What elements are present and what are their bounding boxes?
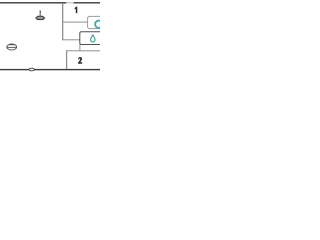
oval icon V1: top stripe bbox=[8, 43, 15, 46]
sprinkler icon S1: stem cap bbox=[40, 10, 42, 12]
node box 2 (droplet device, dark border) bbox=[80, 32, 105, 45]
node box 1 (droplet device, gray border) bbox=[88, 16, 105, 28]
wire: rail horizontal bbox=[66, 50, 100, 51]
wire: branch 1 horizontal to node box 1 bbox=[62, 22, 88, 23]
oval icon V1: outline bbox=[7, 44, 17, 50]
droplet icon D1 (teal ring, clipped at right edge) bbox=[95, 21, 102, 28]
sprinkler icon S1: left tab bbox=[35, 17, 37, 19]
node: ellipse junction on bottom bar bbox=[29, 68, 34, 71]
wire: elbow from node box 2 bottom down to rail bbox=[79, 45, 80, 51]
wire: top bus bar right segment bbox=[74, 2, 100, 3]
sprinkler icon S1: body bbox=[37, 16, 44, 20]
oval icon V1: middle stripe bbox=[7, 46, 17, 49]
wire: vertical trunk 2 down to bottom bar bbox=[66, 50, 67, 69]
wire: vertical trunk from top bar bbox=[62, 3, 63, 40]
sprinkler icon S1: body slit bbox=[38, 16, 43, 19]
sprinkler icon S1: right tab bbox=[44, 17, 46, 19]
label 2 bbox=[78, 57, 82, 64]
wire: branch 2 horizontal to node box 2 bbox=[62, 39, 80, 40]
wire: top bus bar left segment bbox=[0, 2, 66, 3]
wire: top bus bar light middle segment bbox=[66, 2, 73, 3]
droplet icon D2 (teal outline droplet) bbox=[91, 35, 95, 42]
label 1 bbox=[75, 7, 78, 14]
wire: bottom bus bar bbox=[0, 69, 100, 70]
sprinkler icon S1: stem bbox=[40, 10, 42, 16]
background bbox=[0, 0, 100, 75]
